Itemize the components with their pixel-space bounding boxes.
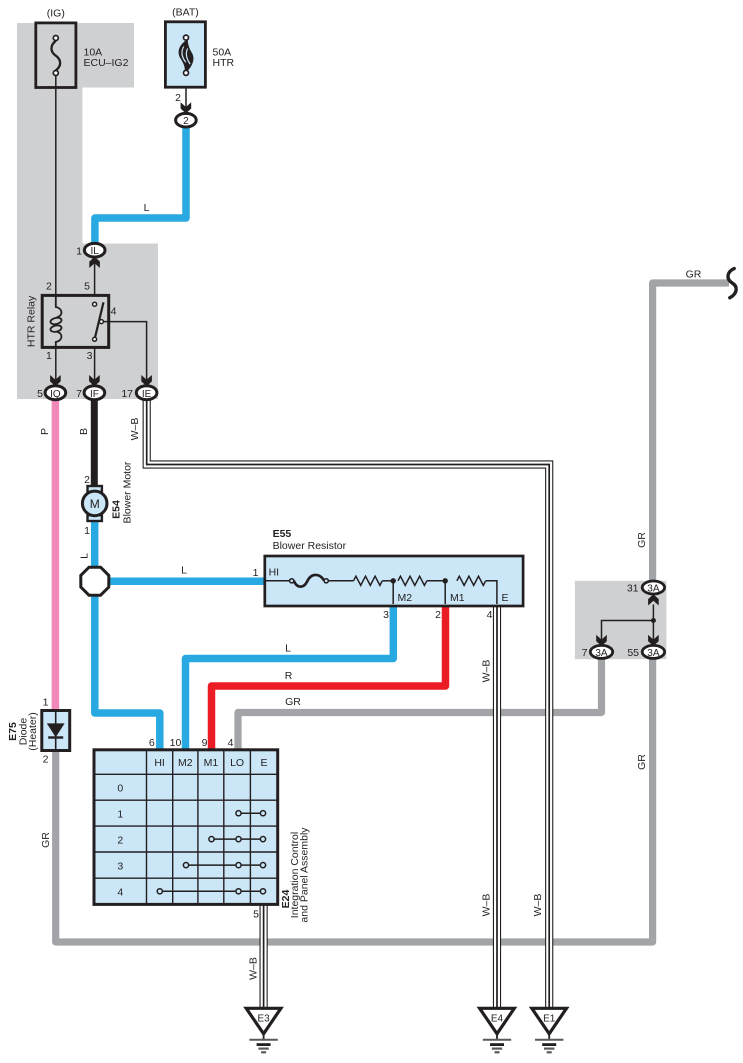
- ground E1: [532, 1008, 567, 1052]
- svg-text:GR: GR: [636, 754, 648, 770]
- svg-text:2: 2: [84, 474, 90, 486]
- svg-text:L: L: [78, 553, 90, 559]
- blower resistor E55 box: [265, 556, 523, 606]
- svg-text:E4: E4: [491, 1014, 504, 1025]
- wire: resistor 3 to E branch: [486, 581, 497, 604]
- connector oval 55-3A: [642, 645, 664, 658]
- svg-text:3A: 3A: [647, 583, 660, 594]
- svg-text:7: 7: [582, 647, 588, 659]
- svg-text:GR: GR: [40, 832, 52, 848]
- node M1: [443, 578, 448, 583]
- wire L: motor pin 1 to octagon junction (blue): [91, 520, 99, 571]
- svg-text:E55: E55: [273, 528, 292, 540]
- svg-text:M2: M2: [398, 592, 413, 604]
- resistor 2 (M2-M1, E55 internal): [398, 576, 427, 585]
- arrow into oval 2: [181, 102, 192, 113]
- svg-text:4: 4: [111, 306, 117, 318]
- connector oval 2: [176, 113, 197, 127]
- wire L: E55 pin 3 M2 to E24 pin 10 (blue): [186, 604, 394, 752]
- wire: E55 pin HI lead: [265, 580, 290, 582]
- svg-text:W–B: W–B: [532, 894, 544, 917]
- wire GR: 7-3A to E24 pin 4 LO (gray): [238, 658, 602, 752]
- connector oval IF: [84, 386, 105, 400]
- svg-text:GR: GR: [686, 269, 702, 281]
- gray background region (3A junction block): [575, 581, 667, 659]
- svg-text:HI: HI: [269, 567, 280, 579]
- wire P: IQ to diode pin 1 (pink): [52, 397, 60, 712]
- svg-text:B: B: [78, 428, 90, 435]
- relay switch contacts: [93, 302, 104, 341]
- diode E75 box: [42, 711, 70, 751]
- wire GR: diode pin 2 to bottom rail to 55-3A (gray): [56, 658, 653, 943]
- blower motor top bracket: [88, 486, 102, 492]
- svg-text:M1: M1: [204, 757, 219, 769]
- svg-text:1: 1: [117, 808, 123, 820]
- svg-text:W–B: W–B: [129, 418, 141, 441]
- resistor 3 (M1-E, E55 internal): [457, 576, 486, 585]
- octagon junction: [81, 567, 109, 595]
- svg-text:E1: E1: [543, 1014, 556, 1025]
- svg-text:1: 1: [253, 567, 259, 579]
- wire L: octagon to E55 pin 1 HI (blue): [107, 577, 267, 585]
- svg-text:5: 5: [84, 281, 90, 293]
- svg-text:2: 2: [43, 754, 49, 766]
- svg-text:IE: IE: [142, 389, 152, 400]
- svg-text:5: 5: [253, 909, 259, 921]
- svg-text:3: 3: [87, 350, 93, 362]
- svg-text:3: 3: [117, 860, 123, 872]
- switch table E24 box: [94, 750, 278, 905]
- wire W-B: E24 pin 5 to E3 ground: [260, 903, 268, 1010]
- off-page continuation squiggle: [728, 269, 736, 298]
- svg-text:31: 31: [627, 583, 639, 595]
- connector oval IL: [84, 243, 105, 257]
- svg-text:HI: HI: [154, 757, 165, 769]
- svg-text:55: 55: [627, 647, 639, 659]
- svg-text:3A: 3A: [595, 648, 608, 659]
- relay coil: [50, 296, 62, 347]
- wire: node M1 branch to pin 2: [444, 581, 446, 604]
- wire: resistor 2 to node M1: [427, 580, 445, 582]
- relay switch blade: [95, 302, 104, 339]
- connector oval IQ: [45, 386, 66, 400]
- fuse ECU-IG2 (IG) box: [36, 23, 76, 88]
- wire: resistor 1 to node M2: [382, 580, 393, 582]
- svg-text:2: 2: [435, 609, 441, 621]
- wire GR: off-page to 31-3A (gray): [653, 283, 729, 582]
- wire: IG fuse to relay pin 2 (thin): [55, 74, 57, 296]
- ground E3: [246, 1008, 281, 1052]
- svg-text:(Heater): (Heater): [27, 712, 39, 751]
- svg-text:Blower Motor: Blower Motor: [121, 461, 133, 523]
- wire: IL oval to relay pin 5 (thin): [94, 257, 96, 297]
- svg-text:IF: IF: [90, 389, 99, 400]
- svg-text:4: 4: [228, 737, 234, 749]
- wire L: octagon to E24 pin 6 HI (blue): [95, 593, 160, 751]
- svg-text:2: 2: [46, 281, 52, 293]
- svg-text:Blower Resistor: Blower Resistor: [273, 540, 347, 552]
- resistor 1 (HI-M2, E55 internal): [354, 576, 383, 585]
- svg-text:1: 1: [43, 697, 49, 709]
- fuse ECU-IG2 element: [51, 36, 60, 76]
- svg-text:L: L: [181, 565, 187, 577]
- gray background region (left, around fuses and relay): [17, 23, 158, 399]
- svg-text:(IG): (IG): [47, 8, 65, 20]
- arrow into IE: [141, 375, 152, 386]
- svg-text:M2: M2: [178, 757, 193, 769]
- svg-text:GR: GR: [636, 532, 648, 548]
- svg-text:10: 10: [170, 737, 182, 749]
- svg-text:5: 5: [37, 388, 43, 400]
- E24 contact row 1: [236, 811, 266, 816]
- wire W-B: E55 pin 4 E to E4 ground: [493, 604, 501, 1011]
- arrow into IQ: [50, 375, 61, 386]
- svg-text:4: 4: [487, 609, 493, 621]
- svg-text:E3: E3: [257, 1014, 270, 1025]
- svg-text:4: 4: [117, 887, 123, 899]
- wire: relay pin 3 to IF (thin): [94, 347, 96, 380]
- node: 3A junction dot: [651, 618, 656, 623]
- svg-text:9: 9: [202, 737, 208, 749]
- svg-text:L: L: [144, 202, 150, 214]
- relay HTR box: [42, 295, 109, 347]
- svg-text:6: 6: [149, 737, 155, 749]
- ground E4: [480, 1008, 515, 1052]
- wire R: E55 pin 2 M1 to E24 pin 9 (red): [212, 604, 446, 752]
- fuse HTR element (heavy braid): [179, 35, 194, 75]
- svg-text:P: P: [39, 428, 51, 435]
- svg-text:3: 3: [383, 609, 389, 621]
- wire: node M2 branch to pin 3: [392, 581, 394, 604]
- wire: thermal fuse to resistor 1: [328, 580, 353, 582]
- svg-text:W–B: W–B: [247, 957, 259, 980]
- svg-text:7: 7: [76, 388, 82, 400]
- svg-text:0: 0: [117, 783, 123, 795]
- connector oval IE: [136, 386, 157, 400]
- E24 contact row 2: [209, 837, 266, 842]
- svg-text:W–B: W–B: [480, 660, 492, 683]
- wire B: IF to blower motor pin 2 (black): [91, 397, 98, 488]
- arrow out of 31-3A: [648, 594, 659, 605]
- fuse HTR (BAT) box: [165, 22, 205, 87]
- svg-text:and Panel Assembly: and Panel Assembly: [299, 827, 311, 923]
- wire: BAT fuse pin 2 lead (thin): [185, 74, 187, 112]
- wire: relay pin 1 to IQ (thin): [55, 347, 57, 380]
- svg-text:3A: 3A: [647, 648, 660, 659]
- svg-text:1: 1: [84, 525, 90, 537]
- svg-text:IL: IL: [91, 246, 100, 257]
- connector oval 31-3A: [642, 581, 664, 594]
- wire: 31-3A to junction dot (thin): [652, 605, 654, 621]
- svg-text:E: E: [260, 757, 267, 769]
- svg-text:IQ: IQ: [50, 389, 61, 400]
- svg-text:17: 17: [121, 388, 133, 400]
- svg-text:HTR Relay: HTR Relay: [25, 295, 37, 347]
- blower motor bottom bracket: [88, 515, 102, 521]
- wire L: BAT oval 2 to IL oval (blue): [95, 125, 186, 246]
- svg-text:(BAT): (BAT): [172, 7, 199, 19]
- thermal fuse (E55 internal): [290, 575, 329, 587]
- svg-text:ECU–IG2: ECU–IG2: [84, 57, 129, 69]
- E24 contact row 4: [157, 889, 265, 894]
- svg-text:R: R: [285, 670, 293, 682]
- arrow into 7-3A: [596, 635, 607, 646]
- connector oval 7-3A: [590, 645, 612, 658]
- svg-text:1: 1: [76, 246, 82, 258]
- wire: junction dot to pin 55 branch (thin): [652, 621, 654, 641]
- svg-text:2: 2: [117, 834, 123, 846]
- wire W-B: IE to E1 ground (white w/ black stripe): [147, 397, 550, 1010]
- svg-text:1: 1: [46, 350, 52, 362]
- blower motor M circle: [82, 491, 107, 516]
- svg-text:LO: LO: [230, 757, 244, 769]
- svg-text:GR: GR: [285, 696, 301, 708]
- svg-text:2: 2: [175, 92, 181, 104]
- arrow into 55-3A: [648, 635, 659, 646]
- node M2: [391, 578, 396, 583]
- svg-text:E: E: [502, 592, 509, 604]
- svg-text:L: L: [285, 643, 291, 655]
- arrow into IF: [89, 375, 100, 386]
- diode symbol: [55, 711, 57, 751]
- wire: relay pin 4 to IE (thin): [103, 322, 147, 380]
- svg-text:2: 2: [183, 116, 189, 127]
- E24 grid: [94, 750, 278, 905]
- E24 contact row 3: [183, 863, 265, 868]
- svg-text:HTR: HTR: [213, 57, 235, 69]
- wire: junction dot to pin 7 branch (thin): [602, 621, 654, 641]
- svg-text:W–B: W–B: [480, 894, 492, 917]
- svg-text:M1: M1: [450, 592, 465, 604]
- svg-text:M: M: [90, 497, 100, 511]
- arrow out of IL: [89, 257, 100, 268]
